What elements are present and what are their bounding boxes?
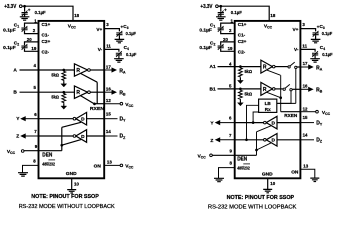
node DY driver input xyxy=(301,122,314,124)
IC body U1 20-pin transceiver xyxy=(39,21,105,178)
svg-text:DEN: DEN xyxy=(237,157,247,163)
svg-text:VCC: VCC xyxy=(125,164,134,170)
svg-text:GND: GND xyxy=(262,171,273,177)
wire pin 13 ON to ground xyxy=(301,169,315,178)
svg-text:NOTE: PINOUT FOR SSOP: NOTE: PINOUT FOR SSOP xyxy=(227,195,295,201)
svg-text:C3: C3 xyxy=(320,24,325,30)
svg-text:+: + xyxy=(224,7,227,12)
junction DEN xyxy=(255,149,258,152)
svg-text:0.1µF: 0.1µF xyxy=(35,10,46,16)
node VCC at pin 9 xyxy=(21,150,24,153)
svg-text:C4: C4 xyxy=(320,45,325,51)
wire loopback RB contact vertical xyxy=(277,91,291,104)
svg-text:ON: ON xyxy=(291,170,299,176)
wire pin 14 to driver Z input xyxy=(87,135,105,137)
svg-text:5: 5 xyxy=(34,85,37,90)
svg-text:2: 2 xyxy=(229,28,232,33)
svg-text:3: 3 xyxy=(106,22,109,27)
junction DEN xyxy=(60,144,63,147)
capacitor bypass 0.1uF U1 xyxy=(24,6,26,12)
wire LB Rx input from Y xyxy=(253,112,259,123)
wire A to receiver pin 4 xyxy=(20,69,75,71)
wire DEN vertical xyxy=(61,127,63,150)
capacitor C4 0.1uF U2 xyxy=(312,53,318,55)
svg-text:VCC: VCC xyxy=(198,153,207,159)
wire capacitor C1 to pin 2 U2 xyxy=(221,31,235,34)
svg-text:4: 4 xyxy=(34,63,37,68)
wire pin 9 DEN to VCC xyxy=(24,150,62,152)
junction loopback Z tap xyxy=(245,138,248,141)
wire pin 9 DEN to VCC xyxy=(212,154,256,156)
svg-text:RS-232 MODE WITHOUT LOOPBACK: RS-232 MODE WITHOUT LOOPBACK xyxy=(19,204,115,210)
svg-text:5kΩ: 5kΩ xyxy=(51,72,59,77)
svg-text:VCC: VCC xyxy=(264,23,273,29)
wire DEN vertical xyxy=(256,132,258,156)
svg-text:RXEN: RXEN xyxy=(90,106,105,111)
capacitor C2 0.1uF U2 xyxy=(218,46,224,48)
svg-text:5kΩ: 5kΩ xyxy=(245,92,253,97)
wire capacitor C1 to pin 2 U1 xyxy=(25,31,39,34)
node DZ driver input xyxy=(104,135,117,137)
wire driver Y output to pin 6 xyxy=(235,122,264,124)
wire pin 15 to driver Y input xyxy=(87,118,105,120)
wire +3.3V rail to VCC pin 18 U2 xyxy=(218,6,269,21)
capacitor C1 0.1uF U2 xyxy=(218,28,224,30)
wire pin 12 to VCC xyxy=(104,103,120,105)
svg-text:8: 8 xyxy=(33,158,36,163)
junction bypass capacitor U2 xyxy=(219,5,222,8)
svg-text:20: 20 xyxy=(27,37,32,42)
svg-text:11: 11 xyxy=(302,44,307,49)
svg-text:DY: DY xyxy=(120,116,127,122)
wire pin 14 to driver Z input xyxy=(277,139,301,141)
svg-text:17: 17 xyxy=(106,65,111,70)
svg-text:2: 2 xyxy=(33,28,36,33)
driver U2C xyxy=(266,116,277,129)
wire pin 15 to driver Y input xyxy=(277,122,301,124)
svg-text:DZ: DZ xyxy=(316,138,323,144)
node Z driver output xyxy=(24,135,38,137)
switch SW1 receiver A1 to RA xyxy=(288,66,290,68)
svg-text:DY: DY xyxy=(316,120,323,126)
svg-text:LB: LB xyxy=(265,101,272,106)
capacitor C2 0.1uF U1 xyxy=(21,46,27,48)
junction B input resistor xyxy=(62,91,65,94)
wire LB Rx input from Z xyxy=(247,105,259,140)
junction RXEN xyxy=(93,103,96,106)
svg-text:V-: V- xyxy=(98,47,103,52)
node RB receiver output xyxy=(301,88,310,90)
svg-text:D: D xyxy=(81,134,85,140)
svg-text:C2-: C2- xyxy=(238,49,246,54)
node DZ driver input xyxy=(301,139,314,141)
ground below bypass capacitor U2 xyxy=(220,14,222,16)
ground below bypass capacitor U1 xyxy=(24,14,26,16)
svg-text:D: D xyxy=(272,138,276,144)
svg-text:4: 4 xyxy=(229,61,232,66)
svg-text:10: 10 xyxy=(74,181,79,186)
junction bypass capacitor U1 xyxy=(23,5,26,8)
wire receiver A enable xyxy=(81,73,98,82)
svg-text:5kΩ: 5kΩ xyxy=(51,95,59,100)
wire RXEN to pin 12 xyxy=(281,111,301,113)
receiver U2A xyxy=(261,60,273,73)
svg-text:8: 8 xyxy=(230,161,233,166)
svg-text:V+: V+ xyxy=(293,27,299,32)
wire loopback RA contact vertical xyxy=(295,69,297,104)
ground at pin 8 xyxy=(214,178,224,181)
wire switch SW1 to pin 17 xyxy=(297,66,301,68)
svg-text:16: 16 xyxy=(106,87,111,92)
svg-text:ON: ON xyxy=(94,163,102,169)
svg-text:Rx: Rx xyxy=(265,107,271,112)
wire driver Z output to pin 7 xyxy=(235,139,264,141)
svg-text:6: 6 xyxy=(34,112,37,117)
svg-text:18: 18 xyxy=(270,13,275,18)
svg-text:R: R xyxy=(76,90,80,96)
ground at pin 8 xyxy=(18,173,28,176)
ground below capacitor C3 U2 xyxy=(315,35,317,39)
svg-text:15: 15 xyxy=(106,112,111,117)
wire receiver B enable xyxy=(81,96,95,104)
receiver U1B xyxy=(74,86,87,98)
ground at pin 10 xyxy=(263,189,272,192)
junction RXEN xyxy=(279,96,282,99)
node Y driver output xyxy=(219,122,235,124)
wire RXEN vertical xyxy=(96,82,98,104)
svg-text:10: 10 xyxy=(270,181,275,186)
svg-text:0.1µF: 0.1µF xyxy=(231,10,242,16)
svg-text:RA: RA xyxy=(119,68,126,74)
wire B1 to receiver pin 5 xyxy=(218,88,261,90)
svg-text:0.1µF: 0.1µF xyxy=(199,28,212,33)
svg-text:C1+: C1+ xyxy=(42,22,51,27)
svg-text:V+: V+ xyxy=(96,27,102,32)
svg-text:20: 20 xyxy=(223,37,228,42)
svg-text:9: 9 xyxy=(230,149,233,154)
svg-text:NOTE: PINOUT FOR SSOP: NOTE: PINOUT FOR SSOP xyxy=(31,194,99,200)
ground at pin 13 xyxy=(310,178,319,181)
wire B to receiver pin 5 xyxy=(20,91,75,93)
wire switch SW2 to pin 16 xyxy=(292,88,301,90)
svg-text:16: 16 xyxy=(303,83,308,88)
svg-text:15: 15 xyxy=(303,115,308,120)
svg-text:6: 6 xyxy=(229,116,232,121)
svg-text:VCC: VCC xyxy=(322,110,331,116)
svg-text:13: 13 xyxy=(107,159,112,164)
svg-text:0.1µF: 0.1µF xyxy=(126,52,137,57)
svg-text:7: 7 xyxy=(229,133,232,138)
wire pin 20 to capacitor C2 U1 xyxy=(25,42,39,45)
svg-text:14: 14 xyxy=(106,129,111,134)
svg-text:9: 9 xyxy=(35,144,38,149)
svg-text:0.1µF: 0.1µF xyxy=(126,31,137,36)
svg-text:12: 12 xyxy=(106,98,111,103)
IC body U2 20-pin transceiver xyxy=(235,21,301,178)
svg-text:RB: RB xyxy=(119,91,126,97)
node VCC at pin 13 xyxy=(120,164,123,167)
svg-text:0.1µF: 0.1µF xyxy=(199,45,212,50)
svg-text:+3.3V: +3.3V xyxy=(200,4,213,10)
svg-text:R: R xyxy=(76,68,80,74)
svg-text:19: 19 xyxy=(228,46,233,51)
wire driver Z enable xyxy=(62,140,81,146)
svg-text:13: 13 xyxy=(303,164,308,169)
junction A input resistor xyxy=(62,69,65,72)
svg-text:DEN: DEN xyxy=(42,152,52,158)
ground below capacitor C4 U1 xyxy=(118,56,120,59)
svg-text:485/232: 485/232 xyxy=(237,165,250,170)
svg-text:DZ: DZ xyxy=(120,134,127,140)
wire pin 8 to ground xyxy=(219,168,235,179)
svg-text:Y: Y xyxy=(16,116,20,122)
node VCC at pin 9 xyxy=(210,154,213,157)
wire LB Rx output to switch contacts xyxy=(277,102,296,104)
svg-text:C1-: C1- xyxy=(42,33,50,38)
loopback receiver LB Rx block xyxy=(259,99,277,112)
capacitor C1 0.1uF U1 xyxy=(21,28,27,30)
wire pin 11 to capacitor C4 U2 xyxy=(300,49,315,51)
ground below capacitor C3 U1 xyxy=(118,35,120,39)
svg-text:0.1µF: 0.1µF xyxy=(3,45,16,50)
svg-text:A: A xyxy=(13,67,17,73)
svg-text:RS-232 MODE WITH LOOPBACK: RS-232 MODE WITH LOOPBACK xyxy=(208,204,297,210)
node RA receiver output xyxy=(301,66,310,68)
svg-text:A1: A1 xyxy=(210,64,216,70)
driver U1C xyxy=(76,112,87,125)
wire pin 20 to capacitor C2 U2 xyxy=(221,42,235,45)
node VCC at pin 12 xyxy=(120,102,123,105)
capacitor C4 0.1uF U1 xyxy=(116,53,122,55)
wire capacitor C2 to pin 19 U2 xyxy=(221,49,235,52)
svg-text:3: 3 xyxy=(302,22,305,27)
wire pin 8 to ground xyxy=(23,165,39,172)
wire pin 10 to ground xyxy=(71,178,73,189)
ground below resistor R3 xyxy=(239,78,241,81)
svg-text:+: + xyxy=(28,7,31,12)
wire receiver B1 enable xyxy=(267,92,281,98)
wire pin 3 to capacitor C3 U1 xyxy=(104,29,119,32)
wire pin 11 to capacitor C4 U1 xyxy=(104,49,119,51)
wire driver Y enable xyxy=(62,122,81,127)
svg-text:D: D xyxy=(81,117,85,123)
svg-text:C2-: C2- xyxy=(42,49,50,54)
wire receiver A1 enable xyxy=(267,70,281,75)
svg-text:R: R xyxy=(263,87,267,93)
svg-text:VCC: VCC xyxy=(7,149,16,155)
wire capacitor C2 to pin 19 U1 xyxy=(25,49,39,52)
svg-text:RB: RB xyxy=(316,88,323,94)
wire +3.3V rail to VCC pin 18 U1 xyxy=(22,6,73,21)
junction loopback Y tap xyxy=(252,121,255,124)
wire pin 1 to capacitor C1 U2 xyxy=(221,23,235,27)
svg-text:C2+: C2+ xyxy=(238,39,247,44)
wire pin 13 ON to VCC xyxy=(104,164,120,166)
svg-text:485/232: 485/232 xyxy=(42,161,55,166)
svg-text:C1-: C1- xyxy=(238,33,246,38)
wire pin 3 to capacitor C3 U2 xyxy=(300,29,315,32)
junction A1 input resistor xyxy=(239,65,242,68)
svg-text:0.1µF: 0.1µF xyxy=(322,52,333,57)
ground below resistor R4 xyxy=(239,100,241,103)
svg-text:7: 7 xyxy=(34,129,37,134)
svg-text:RXEN: RXEN xyxy=(284,113,298,118)
svg-text:VCC: VCC xyxy=(68,23,77,29)
svg-text:V-: V- xyxy=(294,47,299,52)
wire pin 1 to capacitor C1 U1 xyxy=(25,23,39,27)
node Z driver output xyxy=(219,139,235,141)
svg-text:5: 5 xyxy=(229,84,232,89)
svg-text:VCC: VCC xyxy=(125,102,134,108)
svg-text:C4: C4 xyxy=(124,45,129,51)
receiver U2B xyxy=(261,82,273,95)
ground below resistor R1 xyxy=(63,81,65,84)
capacitor bypass 0.1uF U2 xyxy=(220,6,222,12)
node DY driver input xyxy=(104,118,117,120)
svg-text:19: 19 xyxy=(31,46,36,51)
receiver U1A xyxy=(74,64,87,76)
wire driver Y output to pin 6 xyxy=(39,118,74,120)
wire driver Z output to pin 7 xyxy=(39,135,74,137)
wire receiver A output to pin 17 xyxy=(90,69,104,71)
svg-text:12: 12 xyxy=(303,107,308,112)
wire RXEN to pin 12 xyxy=(95,103,105,105)
svg-text:C3: C3 xyxy=(123,24,128,30)
svg-text:Y: Y xyxy=(210,120,214,126)
svg-text:0.1µF: 0.1µF xyxy=(322,31,333,36)
node Y driver output xyxy=(24,118,38,120)
svg-text:Z: Z xyxy=(210,138,213,144)
svg-text:R: R xyxy=(263,65,267,71)
wire A1 to receiver pin 4 xyxy=(218,66,261,68)
svg-text:B1: B1 xyxy=(210,86,216,92)
wire pin 10 to ground xyxy=(267,178,269,189)
svg-text:18: 18 xyxy=(74,13,79,18)
wire driver Y enable xyxy=(257,126,272,132)
svg-text:17: 17 xyxy=(303,61,308,66)
svg-text:11: 11 xyxy=(106,44,111,49)
driver U1D xyxy=(76,130,87,143)
svg-text:B: B xyxy=(13,90,17,96)
svg-text:D: D xyxy=(272,121,276,127)
svg-text:C2+: C2+ xyxy=(42,39,51,44)
wire receiver B output to pin 16 xyxy=(90,91,104,93)
svg-text:5kΩ: 5kΩ xyxy=(245,69,253,74)
switch SW2 receiver B1 to RB xyxy=(283,88,285,90)
svg-text:0.1µF: 0.1µF xyxy=(3,28,16,33)
svg-text:RA: RA xyxy=(316,65,323,71)
wire driver Z enable xyxy=(257,143,272,150)
wire RXEN vertical xyxy=(280,75,282,112)
wire receiver B1 output to loopback switch xyxy=(275,88,283,90)
svg-text:+3.3V: +3.3V xyxy=(4,4,17,10)
ground below capacitor C4 U2 xyxy=(314,56,316,59)
node RA receiver output xyxy=(104,69,113,71)
svg-text:14: 14 xyxy=(303,132,308,137)
wire pin 12 to VCC xyxy=(301,111,316,113)
svg-text:C1+: C1+ xyxy=(238,22,247,27)
svg-text:GND: GND xyxy=(66,171,77,177)
driver U2D xyxy=(266,134,277,147)
ground at pin 10 xyxy=(67,190,76,193)
node VCC at pin 12 xyxy=(316,110,319,113)
junction B1 input resistor xyxy=(239,88,242,91)
wire receiver A1 output to loopback switch xyxy=(275,66,288,68)
svg-text:Z: Z xyxy=(16,133,19,139)
ground below resistor R2 xyxy=(63,103,65,106)
node RB receiver output xyxy=(104,91,113,93)
